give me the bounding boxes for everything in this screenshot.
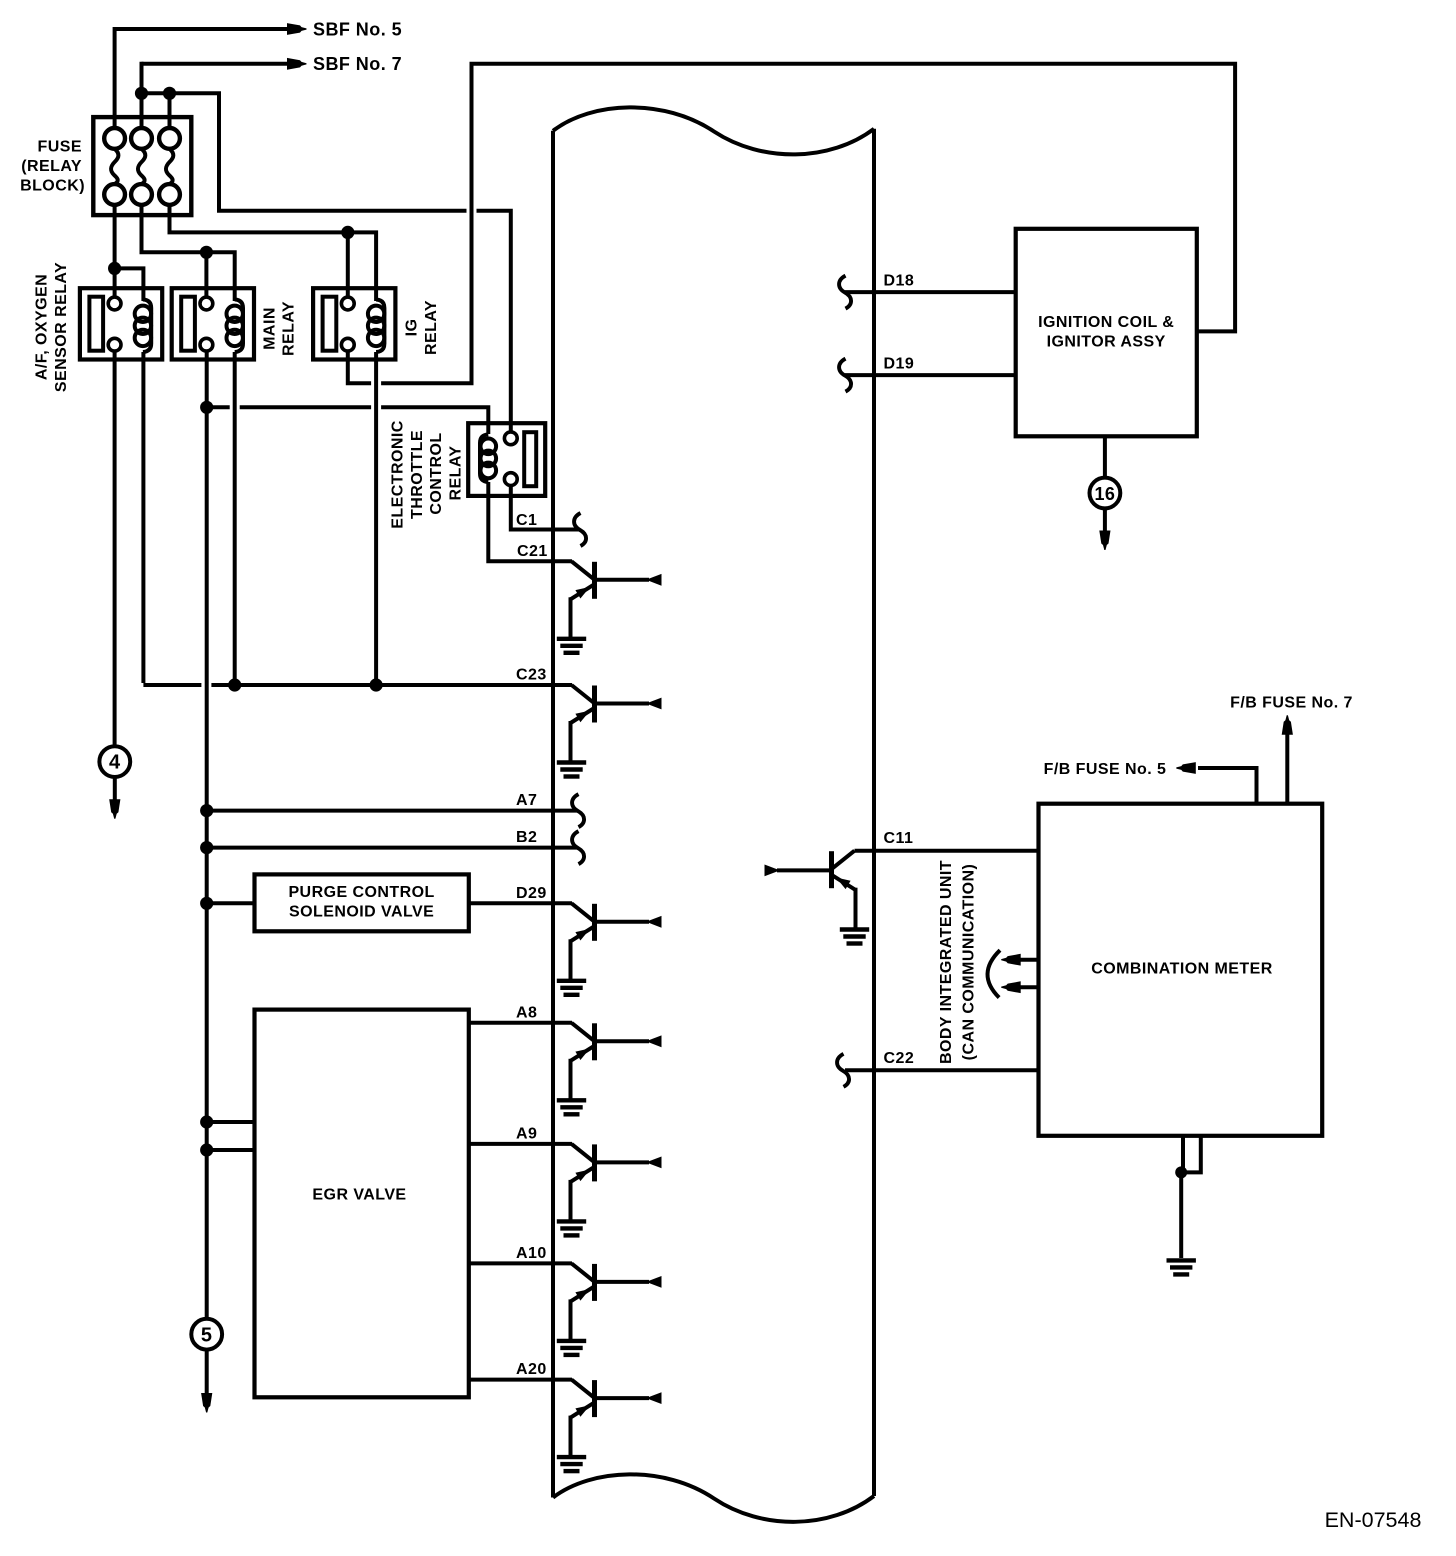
svg-text:RELAY: RELAY [423,300,440,355]
arrow to F/B fuse No. 5 [1176,762,1196,774]
svg-text:SBF No. 5: SBF No. 5 [313,19,402,39]
svg-text:FUSE: FUSE [38,138,82,155]
svg-text:D19: D19 [884,356,915,373]
wire below circle 5 [205,1350,209,1394]
wire purge valve to ECM pin D29 [469,901,572,905]
transistor Q8 at C11 [832,851,855,869]
wire fuse 2 to main relay [142,205,207,252]
EGR valve box [255,1010,469,1398]
transistor Q1 at C21 [572,561,595,579]
wire EGR to ECM pin A8 [469,1021,572,1025]
ECM top break wave [553,107,874,154]
arrow continuation 16 [1099,531,1110,551]
wire fuse 1 to A/F oxygen sensor relay [113,205,117,298]
wire main relay coil to C23 [233,352,237,685]
svg-text:EN-07548: EN-07548 [1325,1508,1422,1532]
break squiggle D18 [839,276,851,309]
ignition coil and ignitor assy box [1016,229,1197,436]
fuse 3 element [159,128,180,149]
ECM connector left wall [551,131,555,1498]
CAN communication arc [988,950,1000,997]
node junction EGR feed 1 [200,1115,213,1128]
svg-text:A20: A20 [516,1361,547,1378]
node junction A7 [200,804,213,817]
svg-text:C11: C11 [884,830,914,847]
wire ECM pin C11 to combination meter [855,849,1039,853]
svg-text:D29: D29 [516,885,547,902]
break squiggle C1 [574,513,586,546]
break squiggle A7 [572,794,584,827]
transistor Q7 at A20 [572,1380,595,1398]
transistor Q4 at A8 [572,1023,595,1041]
wire ignition coil to circle 16 [1103,436,1107,478]
svg-text:C1: C1 [516,512,537,529]
wire IG relay contact to ignition feed line [348,351,371,383]
fuse 2 element [131,128,152,149]
node junction EGR feed 2 [200,1143,213,1156]
wire to electronic throttle control relay contact [170,93,467,211]
wire EGR to ECM pin A20 [469,1378,572,1382]
wire ETC relay contact to ECM pin C1 [511,486,580,530]
relay K1 A/F oxygen sensor relay [80,288,162,359]
node junction IG relay feed [341,226,354,239]
svg-text:SOLENOID VALVE: SOLENOID VALVE [289,904,434,921]
wire IG relay coil to C23 [374,352,378,685]
svg-text:(RELAY: (RELAY [21,158,82,175]
wire main relay coil feed [206,252,234,301]
transistor Q3 at D29 [572,903,595,921]
break squiggle B2 [572,831,584,864]
wire fuse 3 top stub [168,93,172,128]
wire fuse 3 top feed [142,91,170,95]
transistor Q5 at A9 [572,1144,595,1162]
wire EGR to ECM pin A10 [469,1261,572,1265]
CAN communication arrow lower [1014,985,1039,989]
svg-text:F/B FUSE No. 7: F/B FUSE No. 7 [1230,695,1353,712]
wire ECM pin D19 to ignition coil [845,373,1016,377]
svg-text:ELECTRONIC: ELECTRONIC [390,420,407,529]
wire ECM pin C22 to combination meter [845,1068,1039,1072]
arrow continuation 5 [201,1393,212,1413]
svg-text:A9: A9 [516,1125,537,1142]
node junction main relay feed [200,246,213,259]
node circle 5 off-page connector [191,1319,222,1350]
node circle 16 off-page connector [1090,478,1121,509]
svg-text:CONTROL: CONTROL [428,432,445,514]
wire A/F relay coil feed [115,268,144,301]
wire IG relay contact stub [346,232,350,297]
svg-text:F/B FUSE No. 5: F/B FUSE No. 5 [1044,761,1167,778]
node junction ETC relay feed [200,401,213,414]
wire main relay contact stub [204,252,208,297]
node junction A/F relay feed [108,262,121,275]
wire fuse 3 to IG relay [170,205,348,233]
wire meter ground drop [1179,1172,1183,1258]
wire IG relay coil feed [348,232,376,301]
wire EGR valve feed 2 [207,1148,255,1152]
svg-text:SBF No. 7: SBF No. 7 [313,54,402,74]
arrow to SBF No. 5 [287,23,307,35]
wire main relay contact output bus [205,351,209,1319]
wire purge valve feed [207,901,255,905]
wire A/F relay contact output to circle 4 [113,351,117,747]
svg-text:4: 4 [109,752,121,774]
svg-text:SENSOR RELAY: SENSOR RELAY [53,262,70,392]
transistor Q6 at A10 [572,1263,595,1281]
wire below circle 16 [1103,508,1107,532]
svg-text:B2: B2 [516,829,537,846]
wire ECM pin B2 [207,846,578,850]
svg-text:A8: A8 [516,1004,537,1021]
node junction IG coil on C23 [370,678,383,691]
ECM bottom break wave [553,1474,874,1521]
arrow to F/B fuse No. 7 [1282,715,1293,735]
svg-text:A7: A7 [516,792,537,809]
fuse block (relay block) box [93,117,191,215]
svg-text:BODY INTEGRATED UNIT: BODY INTEGRATED UNIT [938,860,955,1064]
purge control solenoid valve box [255,874,469,931]
svg-text:PURGE CONTROL: PURGE CONTROL [288,884,434,901]
node junction on SBF No.7 riser [135,87,148,100]
svg-text:5: 5 [201,1324,213,1346]
wire combination meter ground loop [1181,1137,1185,1172]
svg-text:THROTTLE: THROTTLE [409,430,426,519]
relay K2 main relay [172,288,254,359]
svg-text:A10: A10 [516,1245,547,1262]
transistor Q2 at C23 [572,685,595,703]
svg-text:D18: D18 [884,273,915,290]
wire EGR to ECM pin A9 [469,1142,572,1146]
wire ETC relay coil feed [207,405,230,409]
svg-text:16: 16 [1094,484,1115,504]
wire ECM pin D18 to ignition coil [845,290,1016,294]
wire EGR valve feed 1 [207,1120,255,1124]
svg-text:IG: IG [404,319,421,337]
relay K3 IG relay [313,288,395,359]
svg-text:EGR VALVE: EGR VALVE [312,1187,406,1204]
break squiggle C22 [837,1054,849,1087]
svg-text:(CAN COMMUNICATION): (CAN COMMUNICATION) [960,864,977,1061]
wire SBF No. 5 feed from fuse block [115,27,289,31]
wire ECM pin A7 [207,809,578,813]
svg-text:A/F, OXYGEN: A/F, OXYGEN [34,274,51,380]
svg-text:C21: C21 [517,543,548,560]
ECM connector right wall [872,129,876,1496]
svg-text:C22: C22 [884,1050,915,1067]
combination meter box [1039,804,1323,1136]
wire relay coils to ECM pin C23 [141,352,145,683]
svg-text:C23: C23 [516,667,547,684]
wire F/B fuse No.7 feed [1285,734,1289,804]
svg-text:COMBINATION METER: COMBINATION METER [1091,961,1273,978]
svg-text:RELAY: RELAY [448,445,465,500]
svg-text:IGNITION COIL &: IGNITION COIL & [1038,314,1174,331]
wire F/B fuse No.5 feed [1198,768,1257,804]
node junction fuse 3 top [163,87,176,100]
fuse 1 element [104,128,125,149]
break squiggle D19 [839,359,851,392]
svg-text:BLOCK): BLOCK) [20,177,85,194]
relay K4 electronic throttle control relay [468,423,545,496]
node junction B2 [200,841,213,854]
svg-text:MAIN: MAIN [261,307,278,350]
wire below circle 4 [113,777,117,801]
node junction purge valve feed [200,897,213,910]
node circle 4 off-page connector [99,746,130,777]
CAN communication arrow upper [1014,958,1039,962]
ground combination meter [1167,1258,1196,1262]
node junction meter ground [1175,1166,1187,1178]
arrow to SBF No. 7 [287,58,307,70]
wire SBF No. 7 feed [142,62,290,66]
arrow continuation 4 [109,799,120,819]
wire ETC relay coil to ECM pin C21 [488,482,572,561]
node junction main coil on C23 [228,678,241,691]
svg-text:IGNITOR ASSY: IGNITOR ASSY [1047,334,1166,351]
svg-text:RELAY: RELAY [281,301,298,356]
